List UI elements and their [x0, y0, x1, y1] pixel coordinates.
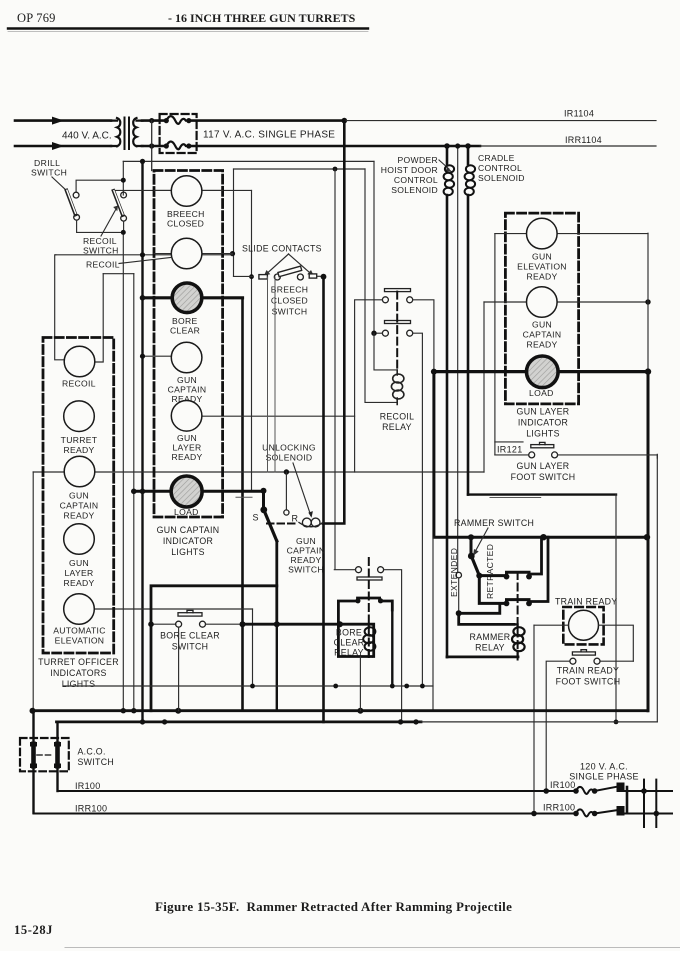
wire vertical x124 from switches to bus	[122, 232, 124, 711]
svg-text:HOIST DOOR: HOIST DOOR	[381, 165, 438, 175]
relay recoil contacts pair 2	[382, 330, 412, 336]
svg-text:IR1104: IR1104	[564, 109, 594, 119]
svg-text:440 V. A.C.: 440 V. A.C.	[62, 130, 112, 141]
wire retracted arm to brackets	[479, 576, 504, 604]
pushbutton bore clear switch cap	[178, 610, 202, 616]
turret officer indicators dashed box	[43, 338, 114, 654]
wire extended contact lead	[458, 578, 460, 612]
terminal vertical x644	[643, 780, 645, 827]
label GUN LAYER READY mid	[171, 433, 202, 462]
svg-text:SLIDE CONTACTS: SLIDE CONTACTS	[242, 244, 322, 254]
relay bore clear contact bar below	[357, 577, 382, 580]
aco switch dashed box	[20, 738, 69, 771]
svg-text:LOAD: LOAD	[174, 507, 199, 517]
fuse F2 bottom	[164, 142, 192, 150]
wire bore clear east drop x241	[241, 298, 244, 711]
svg-text:LAYER: LAYER	[64, 568, 93, 578]
node solenoid pickup on y472	[284, 469, 289, 474]
solenoid powder hoist coil	[444, 146, 455, 657]
svg-text:Figure 15-35F. Rammer Retract: Figure 15-35F. Rammer Retracted After Ra…	[155, 899, 512, 914]
wire middle column feed x151.7	[151, 121, 153, 171]
lamp AUTOMATIC ELEVATION	[64, 594, 95, 625]
relay rammer coil	[512, 624, 525, 657]
wire 117V top line to fuse	[142, 119, 166, 122]
svg-text:TURRET: TURRET	[61, 435, 98, 445]
label RECOIL with leader	[86, 258, 171, 270]
label GUN CAPTAIN INDICATOR LIGHTS	[157, 525, 220, 557]
wire train foot switch left lead	[546, 661, 570, 791]
wire vertical x374 from line A to recoil relay pair2	[373, 161, 375, 333]
svg-text:CONTROL: CONTROL	[394, 175, 438, 185]
wire 440V input line top	[15, 117, 111, 125]
label TRAIN READY	[555, 597, 617, 607]
svg-text:GUN: GUN	[532, 320, 552, 330]
svg-text:GUN: GUN	[69, 558, 89, 568]
lamp TURRET READY	[64, 401, 95, 432]
wire bc relay right side down	[391, 601, 393, 686]
svg-text:GUN: GUN	[177, 375, 197, 385]
svg-text:IR121: IR121	[497, 445, 523, 455]
lamp GUN LAYER READY (middle col)	[171, 401, 202, 432]
pushbutton train ready foot switch cap	[572, 650, 595, 655]
svg-text:CAPTAIN: CAPTAIN	[168, 385, 207, 395]
node transformer bottom	[149, 143, 154, 148]
svg-text:SOLENOID: SOLENOID	[391, 185, 438, 195]
fuse F1 top	[164, 116, 192, 124]
wire riser x484	[483, 302, 485, 472]
wire upper bracket to feed	[529, 537, 542, 574]
wire IRR1104 thin rail	[480, 145, 656, 147]
svg-text:RELAY: RELAY	[475, 643, 505, 653]
svg-text:LIGHTS: LIGHTS	[171, 547, 205, 557]
svg-text:ELEVATION: ELEVATION	[517, 262, 567, 272]
label TURRET OFFICER INDICATORS LIGHTS	[38, 657, 119, 689]
node breech feed at switch line	[249, 274, 254, 279]
wire y495 link cradle to x616	[468, 495, 616, 722]
label CRADLE CONTROL SOLENOID	[478, 153, 525, 183]
node extended to relay	[456, 610, 462, 616]
node recoil net x142	[140, 252, 145, 257]
wire recoil lamp net y255	[56, 254, 233, 256]
node line B x335	[333, 167, 338, 172]
wire line B y169	[234, 168, 366, 170]
label EXTENDED vertical	[449, 548, 459, 597]
label IRR100 right	[531, 803, 575, 817]
svg-text:CLEAR: CLEAR	[170, 326, 200, 336]
relay recoil actuator dashed	[396, 292, 398, 371]
label TRAIN READY FOOT SWITCH	[556, 666, 621, 687]
node load line x434	[431, 369, 437, 375]
svg-text:LIGHTS: LIGHTS	[526, 429, 560, 439]
svg-text:LIGHTS: LIGHTS	[62, 679, 96, 689]
label IR100 left	[75, 781, 101, 791]
label GUN CAPTAIN READY mid	[168, 375, 207, 404]
svg-text:GUN: GUN	[532, 252, 552, 262]
lamp RECOIL (left col)	[64, 346, 95, 377]
wire bore clear sw left contact drop x178	[178, 627, 180, 711]
label 120 V. A.C. SINGLE PHASE	[569, 762, 639, 782]
label S	[253, 513, 259, 523]
label BORE CLEAR SWITCH	[160, 631, 220, 652]
wire drill+recoil switch top feed	[76, 161, 126, 195]
svg-text:SWITCH: SWITCH	[172, 642, 209, 652]
svg-text:INDICATORS: INDICATORS	[50, 668, 106, 678]
wire O contact drop	[285, 472, 287, 510]
svg-text:READY: READY	[290, 555, 321, 565]
label LOAD mid	[174, 507, 199, 517]
lamp GUN CAPTAIN READY (right col)	[527, 287, 558, 318]
solenoid unlocking symbol	[299, 518, 323, 527]
label R	[292, 514, 299, 524]
svg-text:15-28J: 15-28J	[14, 923, 53, 937]
node bus2 dots	[140, 719, 419, 724]
relay bore clear contacts	[356, 567, 384, 573]
node bore clear bus x241	[240, 621, 246, 627]
pushbutton gun layer foot switch contacts	[529, 452, 558, 458]
node line A x142	[140, 159, 145, 164]
node bore clear switch left	[148, 621, 154, 627]
node load line x648	[645, 368, 651, 374]
label RECOIL left col	[62, 379, 96, 389]
svg-text:FOOT SWITCH: FOOT SWITCH	[511, 472, 576, 482]
svg-text:RETRACTED: RETRACTED	[485, 544, 495, 599]
svg-text:SWITCH: SWITCH	[288, 565, 324, 575]
svg-text:SINGLE PHASE: SINGLE PHASE	[569, 772, 639, 782]
wire rammer feed thick y537	[434, 372, 647, 538]
lamp TRAIN READY	[569, 610, 599, 640]
wire thin x275	[274, 277, 276, 472]
node gc ready mid x142	[140, 354, 145, 359]
node load net x134	[131, 489, 137, 495]
svg-text:RECOIL: RECOIL	[380, 412, 415, 422]
svg-text:TRAIN READY: TRAIN READY	[555, 597, 617, 607]
leader drill switch	[52, 177, 67, 191]
wire 120V out bottom	[625, 811, 673, 817]
wire 120V out top	[625, 788, 673, 794]
lamp LOAD lit (right col)	[527, 356, 559, 388]
node powder solenoid top	[444, 143, 450, 149]
relay bore clear thick box	[338, 598, 392, 657]
label TURRET READY	[61, 435, 98, 455]
terminal vertical x656	[655, 780, 657, 827]
aco switch left pole	[32, 711, 34, 813]
gun layer indicator lights dashed box	[505, 213, 578, 404]
svg-text:SWITCH: SWITCH	[83, 246, 119, 256]
relay recoil contacts pair 1	[382, 297, 412, 303]
label GUN CAPTAIN READY left	[60, 491, 99, 521]
leader powder hoist	[439, 160, 452, 172]
lamp BORE CLEAR lit	[172, 283, 202, 313]
switch gun captain ready pivot	[260, 491, 267, 513]
wire recoil relay pair1 left lead	[355, 300, 383, 472]
transformer T1 core	[125, 118, 130, 150]
svg-text:READY: READY	[63, 578, 94, 588]
wire bore clear thick line y298	[143, 296, 243, 299]
header text OP 769	[17, 11, 56, 25]
leader unlocking solenoid	[293, 463, 313, 518]
relay bore clear coil	[363, 624, 375, 656]
pushbutton bore clear contacts	[176, 621, 206, 627]
label IR1104	[564, 109, 594, 119]
pushbutton gun layer foot switch cap	[531, 442, 554, 447]
wire train ready lamp left lead	[534, 625, 569, 813]
label RECOIL SWITCH	[83, 236, 119, 256]
wire bus1 thick y710.7	[33, 709, 648, 712]
label BREECH CLOSED SWITCH	[271, 285, 309, 317]
svg-text:TRAIN READY: TRAIN READY	[557, 666, 619, 676]
fuse IR100	[573, 787, 597, 794]
svg-text:IRR100: IRR100	[543, 803, 575, 813]
label 440 V. A.C.	[62, 130, 112, 141]
wire bc switch left tail below	[276, 624, 278, 711]
wire LOAD thick net y372	[434, 370, 648, 373]
transformer T1 primary winding	[111, 118, 120, 146]
footer bottom faint rule	[65, 947, 680, 949]
svg-text:A.C.O.: A.C.O.	[78, 747, 106, 757]
lamp BREECH CLOSED	[154, 176, 223, 207]
aco switch contact nubs	[30, 742, 61, 768]
wire vertical x142 thick main drop	[141, 161, 143, 722]
wire net y472	[33, 471, 484, 473]
switch rammer pivot	[468, 537, 475, 559]
wire gun captain ready net y302	[484, 301, 648, 303]
switch recoil contacts	[121, 192, 127, 221]
wire recoil relay pair1 right lead	[413, 300, 434, 372]
svg-text:GUN: GUN	[177, 433, 197, 443]
label GUN ELEVATION READY	[517, 252, 567, 282]
wire recoil lamp left drop x54.7	[55, 255, 64, 360]
svg-text:READY: READY	[171, 452, 202, 462]
svg-text:GUN LAYER: GUN LAYER	[517, 407, 570, 417]
label GUN CAPTAIN READY right	[523, 320, 562, 350]
label SLIDE CONTACTS	[242, 244, 322, 254]
wire bc relay box drop x360	[359, 657, 361, 711]
svg-text:POWDER: POWDER	[398, 155, 438, 165]
lamp LOAD lit (middle col)	[171, 476, 202, 507]
wire recoil lamp right riser x103.2	[95, 274, 103, 362]
label RETRACTED vertical	[485, 544, 495, 599]
wire gc ready mid lamp lead y356.5	[143, 355, 172, 357]
node recoil relay pair2 feed	[371, 331, 382, 336]
wire y497 stub	[236, 496, 252, 498]
connector 120V block bottom	[595, 806, 625, 816]
wire bore clear bus y624 left	[151, 623, 176, 625]
wire bus2 thick y721.9	[57, 721, 658, 724]
switch breech closed right stub	[309, 274, 323, 278]
svg-text:TURRET OFFICER: TURRET OFFICER	[38, 657, 119, 667]
footer figure caption	[155, 899, 512, 914]
svg-text:SWITCH: SWITCH	[272, 307, 308, 317]
wire bore clear switch right lead	[206, 623, 243, 625]
wire train foot switch right lead	[600, 660, 633, 662]
label A.C.O. SWITCH	[78, 747, 115, 768]
svg-text:AUTOMATIC: AUTOMATIC	[53, 626, 106, 636]
svg-text:LAYER: LAYER	[172, 443, 201, 453]
svg-text:CLOSED: CLOSED	[167, 219, 204, 229]
relay bore clear actuator dashed	[368, 558, 370, 660]
wire x433 thin drop rammer left	[432, 537, 434, 711]
wire vertical x134	[133, 274, 135, 712]
wire train ready lamp right lead	[599, 625, 634, 661]
wire breech lamp net y190.4	[114, 189, 252, 191]
lamp GUN LAYER READY (left col)	[64, 524, 95, 555]
header title 16 INCH THREE GUN TURRETS	[168, 11, 356, 25]
wire bc relay contact right lead	[384, 570, 402, 722]
wire drop x252.5 to y686 line	[252, 609, 254, 686]
node gc switch feed	[261, 488, 267, 494]
switch breech closed slide contact left stub	[259, 275, 268, 279]
label IR100 right	[543, 780, 575, 794]
wire recoil relay pair2 right lead	[413, 333, 423, 686]
wire recoil relay coil top lead	[374, 333, 397, 370]
wire IR1104 thin rail	[344, 120, 656, 122]
label AUTOMATIC ELEVATION	[53, 626, 106, 646]
wire gun layer mid lamp net y416.5	[202, 415, 355, 417]
leader slide contacts arrows	[264, 254, 314, 276]
label IRR1104	[565, 135, 602, 145]
label RECOIL RELAY	[380, 412, 415, 433]
svg-text:CLOSED: CLOSED	[271, 296, 308, 306]
node bc relay box dots	[337, 598, 383, 627]
label BORE CLEAR RELAY	[334, 628, 365, 658]
svg-text:OP 769: OP 769	[17, 11, 56, 25]
svg-text:RECOIL: RECOIL	[62, 379, 96, 389]
wire breech switch stub y276.5	[234, 275, 253, 277]
wire lower bracket right lead	[529, 537, 548, 601]
switch recoil arm	[114, 191, 124, 215]
leader recoil switch arrow	[101, 206, 118, 237]
wire 117V top rail thick	[189, 119, 344, 122]
svg-text:BREECH: BREECH	[271, 285, 309, 295]
wire thin x267	[267, 277, 269, 472]
wire left drop x33 to bus1	[32, 472, 34, 711]
svg-text:READY: READY	[526, 272, 557, 282]
node x648 y302	[645, 299, 650, 304]
svg-text:RECOIL: RECOIL	[86, 260, 120, 270]
transformer T1 secondary winding	[133, 118, 142, 146]
svg-text:RELAY: RELAY	[382, 422, 412, 432]
node breech switch to return	[321, 274, 327, 280]
wire thin net y686	[63, 685, 433, 687]
svg-text:IRR1104: IRR1104	[565, 135, 602, 145]
svg-text:R: R	[292, 514, 299, 524]
switch drill arm	[67, 190, 76, 214]
svg-text:RECOIL: RECOIL	[83, 236, 117, 246]
wire riser x494.9 ir121 feed	[494, 234, 496, 455]
lamp GUN CAPTAIN READY (middle col)	[171, 342, 202, 373]
svg-text:BORE: BORE	[336, 628, 362, 638]
svg-text:SOLENOID: SOLENOID	[266, 453, 313, 463]
svg-text:SWITCH: SWITCH	[78, 757, 115, 767]
svg-text:RAMMER SWITCH: RAMMER SWITCH	[454, 518, 534, 528]
wire vertical x233.5 breech switch riser	[233, 169, 235, 276]
wire vertical x335 to bore clear relay contact	[334, 169, 336, 569]
svg-text:SOLENOID: SOLENOID	[478, 173, 525, 183]
wire load thick net y491.5	[134, 490, 264, 493]
node rammer feed x543	[540, 534, 546, 540]
label BREECH CLOSED	[167, 209, 205, 229]
svg-text:117 V. A.C. SINGLE PHASE: 117 V. A.C. SINGLE PHASE	[203, 130, 335, 141]
wire foot switch right lead	[558, 455, 658, 458]
switch gun captain ready arm	[264, 510, 277, 541]
node rammer feed x647	[644, 534, 650, 540]
leader rammer switch	[473, 528, 488, 556]
label IR121	[495, 442, 523, 455]
wire right thin loop x657	[656, 454, 658, 722]
wire IR100 line	[58, 790, 577, 792]
label LOAD right	[529, 388, 554, 398]
wire 117V bottom line to fuse	[142, 145, 166, 148]
label GUN LAYER FOOT SWITCH	[511, 461, 576, 482]
relay recoil contact bar 1	[385, 289, 411, 292]
wire bore clear switch thick box top	[151, 586, 277, 711]
svg-text:IRR100: IRR100	[75, 804, 107, 814]
node recoil lamp line x233.5	[230, 251, 235, 256]
wire automatic elevation lead y609	[94, 608, 253, 610]
switch rammer arm to retracted	[471, 556, 482, 579]
gun captain indicator lights dashed box	[154, 171, 223, 518]
svg-text:READY: READY	[63, 511, 94, 521]
lamp GUN CAPTAIN READY (left col)	[64, 456, 95, 487]
relay recoil coil	[391, 370, 404, 405]
label GUN CAPTAIN READY SWITCH	[287, 536, 326, 575]
wire line A y161 from switches to recoil relay	[123, 160, 374, 162]
node y686 dots	[250, 684, 425, 689]
node load net x142	[140, 489, 146, 495]
wire y497 stub right	[490, 497, 541, 499]
bracket retracted upper	[504, 572, 532, 579]
label RAMMER RELAY	[470, 632, 511, 653]
wire extended contact riser x457.7	[455, 143, 460, 572]
svg-text:BORE: BORE	[172, 316, 198, 326]
wire solenoid return thick x324	[322, 277, 325, 722]
lamp GUN ELEVATION READY	[527, 218, 558, 249]
node bore clear x142	[140, 295, 146, 301]
svg-text:GUN: GUN	[296, 536, 316, 546]
label UNLOCKING SOLENOID	[262, 443, 316, 463]
wire x648 thin segment	[647, 233, 649, 372]
svg-text:IR100: IR100	[550, 780, 576, 790]
node bus1 dots	[30, 708, 364, 714]
svg-text:FOOT SWITCH: FOOT SWITCH	[556, 677, 621, 687]
label GUN LAYER INDICATOR LIGHTS	[517, 407, 570, 439]
svg-text:IR100: IR100	[75, 781, 101, 791]
wire rammer coil bottom to powder wire	[447, 656, 518, 659]
svg-text:CLEAR: CLEAR	[334, 638, 365, 648]
fuse box dashed enclosure	[160, 114, 197, 153]
pushbutton train ready contacts	[570, 658, 600, 664]
node 117V top at x344	[342, 118, 348, 124]
label DRILL SWITCH	[31, 158, 67, 178]
svg-text:120 V. A.C.: 120 V. A.C.	[580, 762, 628, 772]
wire 117V thick drop x344	[323, 121, 344, 524]
node cradle solenoid top	[465, 143, 471, 149]
wire 440V input line bottom	[15, 142, 111, 150]
train ready dashed box	[563, 607, 603, 644]
svg-text:BORE CLEAR: BORE CLEAR	[160, 631, 220, 641]
svg-text:- 16 INCH THREE GUN TURRETS: - 16 INCH THREE GUN TURRETS	[168, 11, 356, 25]
svg-text:READY: READY	[63, 445, 94, 455]
contact extended circle	[456, 572, 462, 578]
node transformer top	[149, 118, 154, 123]
contact O circle	[284, 510, 289, 515]
wire bore clear bus y624 thick to relay	[243, 624, 374, 656]
label BORE CLEAR	[170, 316, 200, 336]
svg-text:GUN CAPTAIN: GUN CAPTAIN	[157, 525, 220, 535]
wire gun elevation ready net y233.6	[495, 233, 648, 235]
bracket retracted lower	[504, 600, 532, 607]
aco switch dashed link	[37, 754, 54, 756]
